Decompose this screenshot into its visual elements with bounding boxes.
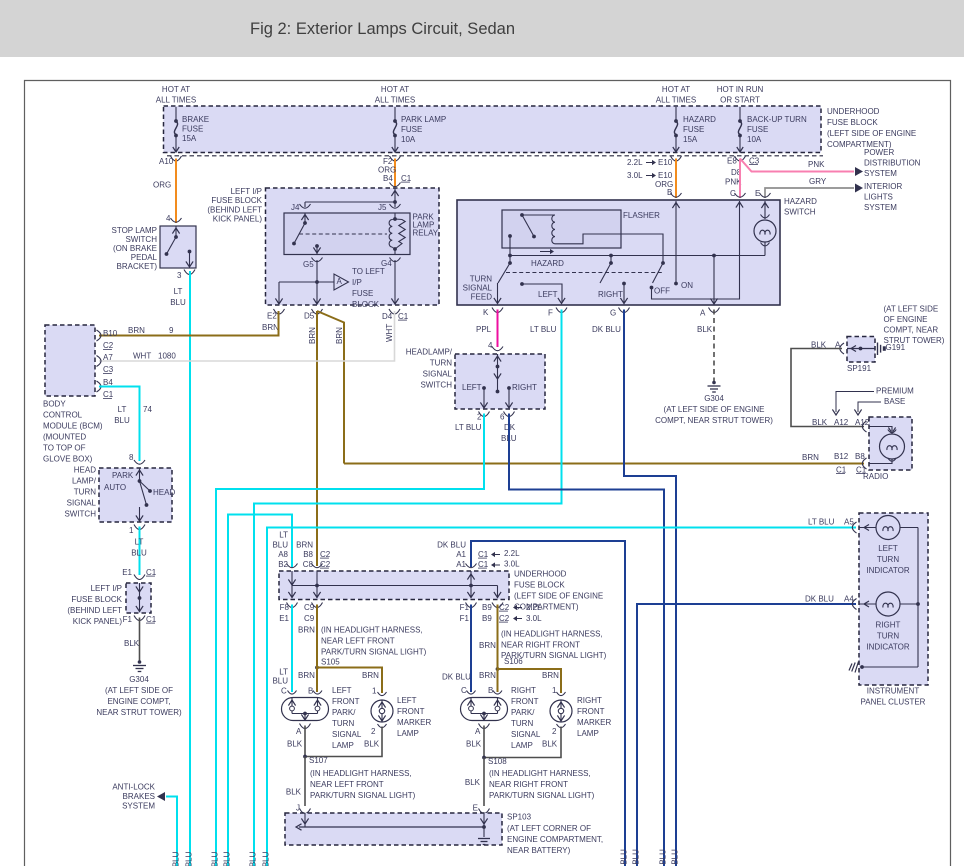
svg-text:(IN HEADLIGHT HARNESS,: (IN HEADLIGHT HARNESS,: [489, 769, 591, 778]
flasher output step line to OFF contact: [555, 234, 663, 262]
svg-text:BRN: BRN: [262, 323, 279, 332]
svg-text:LT: LT: [279, 530, 288, 539]
svg-text:BLU: BLU: [131, 548, 147, 557]
svg-text:AUTO: AUTO: [104, 483, 126, 492]
svg-text:TO LEFT: TO LEFT: [352, 267, 385, 276]
connector A left park/turn lamp: [300, 724, 311, 729]
svg-text:C1: C1: [836, 465, 847, 474]
svg-text:B9: B9: [482, 614, 492, 623]
wire LT BLU stop lamp switch to bottom of page: [189, 271, 191, 866]
connector E: [479, 809, 490, 814]
right front park/turn signal lamp: [461, 698, 508, 721]
svg-text:LT BLU: LT BLU: [249, 851, 258, 866]
internal wire B4 to relay: [394, 188, 396, 202]
ground G304 (left): [138, 660, 142, 664]
svg-text:LT: LT: [279, 667, 288, 676]
wire LT BLU to anti-lock brakes system: [166, 797, 177, 866]
svg-text:15A: 15A: [182, 134, 197, 143]
svg-text:Fig 2: Exterior Lamps Circuit,: Fig 2: Exterior Lamps Circuit, Sedan: [250, 20, 515, 38]
ground SP103: [478, 838, 490, 840]
svg-text:PREMIUM: PREMIUM: [876, 386, 914, 395]
svg-text:INDICATOR: INDICATOR: [866, 566, 909, 575]
svg-text:HOT AT: HOT AT: [662, 85, 690, 94]
connector C8 top: [312, 564, 323, 568]
svg-text:F8: F8: [280, 603, 290, 612]
svg-text:1: 1: [129, 526, 134, 535]
svg-text:LEFT: LEFT: [332, 686, 352, 695]
svg-text:POWER: POWER: [864, 148, 894, 157]
svg-text:SP103: SP103: [507, 812, 532, 821]
BASE call-out: [858, 402, 881, 412]
svg-text:LT BLU: LT BLU: [455, 423, 482, 432]
svg-text:3.0L: 3.0L: [504, 559, 520, 568]
svg-text:E: E: [755, 189, 760, 198]
right turn indicator lamp: [859, 603, 876, 605]
svg-text:LIGHTS: LIGHTS: [864, 192, 893, 201]
svg-text:LAMP: LAMP: [511, 741, 533, 750]
svg-text:LT BLU: LT BLU: [172, 851, 181, 866]
svg-text:A: A: [700, 308, 706, 317]
svg-text:BLU: BLU: [170, 298, 186, 307]
svg-text:NEAR RIGHT FRONT: NEAR RIGHT FRONT: [501, 640, 580, 649]
wire BLK right park/turn A to S108: [483, 726, 485, 758]
svg-text:PARK/: PARK/: [511, 708, 535, 717]
svg-text:GLOVE BOX): GLOVE BOX): [43, 454, 93, 463]
svg-text:B12: B12: [834, 452, 849, 461]
svg-text:SIGNAL: SIGNAL: [511, 730, 541, 739]
svg-text:(MOUNTED: (MOUNTED: [43, 432, 86, 441]
svg-text:FUSE BLOCK: FUSE BLOCK: [71, 595, 122, 604]
svg-text:C1: C1: [398, 312, 409, 321]
svg-text:C2: C2: [499, 603, 510, 612]
connector B8 radio: [862, 458, 866, 469]
svg-text:2.2L: 2.2L: [526, 603, 542, 612]
svg-text:HOT AT: HOT AT: [162, 85, 190, 94]
wire BRN S106 branch to right front marker lamp: [498, 669, 562, 693]
svg-text:BRN: BRN: [298, 671, 315, 680]
svg-text:INDICATOR: INDICATOR: [866, 642, 909, 651]
svg-text:J5: J5: [378, 203, 387, 212]
connector J4: [300, 204, 311, 208]
svg-text:RIGHT: RIGHT: [577, 696, 602, 705]
svg-text:LT: LT: [174, 287, 183, 296]
svg-text:SP191: SP191: [847, 364, 872, 373]
connector D5: [312, 309, 323, 314]
svg-text:B: B: [667, 188, 672, 197]
PREMIUM call-out: [836, 392, 874, 413]
svg-text:SWITCH: SWITCH: [784, 207, 816, 216]
svg-text:BLK: BLK: [466, 739, 482, 748]
svg-text:WHT: WHT: [385, 324, 394, 342]
wire BLK right marker 2 to S108: [484, 727, 561, 758]
svg-text:FUSE: FUSE: [683, 125, 704, 134]
svg-text:2: 2: [477, 412, 482, 421]
svg-text:LT: LT: [135, 537, 144, 546]
svg-text:C2: C2: [320, 550, 331, 559]
splice pack SP191 box: [847, 337, 875, 363]
svg-text:BRN: BRN: [296, 540, 313, 549]
svg-text:SWITCH: SWITCH: [125, 235, 157, 244]
svg-text:C1: C1: [146, 568, 157, 577]
svg-text:SWITCH: SWITCH: [64, 509, 96, 518]
svg-text:ON: ON: [681, 281, 693, 290]
wire LT BLU turn signal 2 (left turn): [216, 414, 484, 866]
OFF switch blade: [661, 261, 665, 265]
svg-text:PARK/TURN SIGNAL LIGHT): PARK/TURN SIGNAL LIGHT): [310, 791, 416, 800]
wire BRN S105 branch to left front marker lamp: [317, 668, 382, 694]
body control module (BCM) box: [45, 325, 95, 396]
left front park/turn signal lamp: [282, 698, 329, 721]
ground G304 (center): [712, 381, 716, 385]
band internal lines: [291, 571, 293, 598]
svg-text:RADIO: RADIO: [863, 472, 888, 481]
svg-text:HAZARD: HAZARD: [531, 259, 564, 268]
ground G191: [877, 343, 879, 356]
svg-text:KICK PANEL): KICK PANEL): [213, 215, 263, 224]
svg-text:CONTROL: CONTROL: [43, 410, 83, 419]
svg-text:FUSE: FUSE: [401, 125, 422, 134]
svg-text:BLK: BLK: [286, 787, 302, 796]
svg-text:C2: C2: [103, 341, 114, 350]
svg-text:ALL TIMES: ALL TIMES: [375, 95, 415, 104]
wire PNK branch to power distribution system: [740, 159, 854, 172]
hazard mechanical link (dashed): [506, 272, 663, 274]
svg-text:FUSE BLOCK: FUSE BLOCK: [827, 118, 878, 127]
svg-text:A7: A7: [103, 353, 113, 362]
svg-text:LEFT: LEFT: [878, 544, 898, 553]
svg-text:10A: 10A: [401, 135, 416, 144]
svg-text:LEFT: LEFT: [397, 696, 417, 705]
svg-text:DK BLU: DK BLU: [659, 849, 668, 866]
svg-text:ANTI-LOCK: ANTI-LOCK: [112, 782, 155, 791]
svg-text:E2: E2: [267, 311, 277, 320]
wire PNK E8 to hazard switch C: [739, 159, 741, 199]
svg-text:(LEFT SIDE OF ENGINE: (LEFT SIDE OF ENGINE: [827, 129, 916, 138]
svg-text:INSTRUMENT: INSTRUMENT: [867, 686, 920, 695]
svg-text:(BEHIND LEFT: (BEHIND LEFT: [207, 205, 262, 214]
svg-text:RIGHT: RIGHT: [512, 383, 537, 392]
relay resistor: [395, 219, 405, 249]
svg-text:C1: C1: [478, 560, 489, 569]
svg-text:NEAR RIGHT FRONT: NEAR RIGHT FRONT: [489, 780, 568, 789]
svg-text:DK BLU: DK BLU: [592, 325, 621, 334]
svg-text:E10: E10: [658, 158, 673, 167]
chassis ground symbol cluster: [855, 662, 859, 673]
svg-text:FRONT: FRONT: [511, 697, 539, 706]
turn signal switch box: [455, 354, 545, 409]
svg-text:DK BLU: DK BLU: [805, 594, 834, 603]
svg-text:TURN: TURN: [877, 631, 899, 640]
svg-text:SIGNAL: SIGNAL: [463, 283, 493, 292]
splice S107: [303, 755, 307, 759]
svg-text:74: 74: [143, 405, 152, 414]
connector 3 of stop lamp switch: [184, 270, 195, 275]
svg-text:LT BLU: LT BLU: [223, 851, 232, 866]
svg-text:3.0L: 3.0L: [526, 614, 542, 623]
wire BLK left marker 2 to S107: [305, 727, 382, 757]
svg-text:S106: S106: [504, 657, 523, 666]
svg-text:BRN: BRN: [802, 453, 819, 462]
relay switch contacts: [304, 213, 306, 222]
svg-text:COMPT, NEAR: COMPT, NEAR: [884, 325, 939, 334]
relay mechanical link (dashed): [299, 233, 387, 235]
svg-text:PARK/TURN SIGNAL LIGHT): PARK/TURN SIGNAL LIGHT): [321, 647, 427, 656]
connector B right park/turn lamp: [493, 691, 502, 695]
svg-text:DK BLU: DK BLU: [632, 849, 641, 866]
wire BLK S108 to E: [483, 758, 485, 807]
svg-text:NEAR STRUT TOWER): NEAR STRUT TOWER): [96, 708, 182, 717]
radio internal illumination lamp: [869, 427, 892, 432]
svg-text:FUSE BLOCK: FUSE BLOCK: [211, 196, 262, 205]
svg-text:INTERIOR: INTERIOR: [864, 182, 902, 191]
connector E1/C1: [134, 575, 145, 580]
underhood fuse block (band) box: [279, 571, 509, 600]
svg-text:STOP LAMP: STOP LAMP: [112, 226, 158, 235]
svg-text:1080: 1080: [158, 351, 176, 360]
svg-text:BRN: BRN: [335, 327, 344, 344]
hazard switch box: [457, 200, 780, 305]
svg-text:(IN HEADLIGHT HARNESS,: (IN HEADLIGHT HARNESS,: [310, 769, 412, 778]
LEFT position contact: [520, 282, 524, 286]
svg-text:15A: 15A: [683, 135, 698, 144]
svg-text:F1: F1: [460, 603, 470, 612]
svg-text:DK BLU: DK BLU: [437, 540, 466, 549]
wire DK BLU to instrument cluster A4: [637, 604, 856, 866]
connector E hazard switch: [760, 193, 771, 197]
left I/P fuse block box: [266, 188, 440, 305]
svg-text:B4: B4: [383, 174, 393, 183]
left I/P fuse block (small pass-through) box: [126, 583, 151, 613]
svg-text:FRONT: FRONT: [577, 707, 605, 716]
connector C right park/turn lamp: [467, 691, 476, 695]
svg-text:LAMP: LAMP: [397, 729, 419, 738]
svg-text:F1: F1: [460, 614, 470, 623]
connector A: [709, 308, 720, 313]
wire DK BLU underhood A1 feed: [471, 541, 625, 866]
wire BRN to left park/turn lamp B: [316, 605, 318, 693]
svg-text:I/P: I/P: [352, 278, 362, 287]
svg-text:BLU: BLU: [272, 676, 288, 685]
svg-text:KICK PANEL): KICK PANEL): [73, 617, 123, 626]
svg-text:FRONT: FRONT: [397, 707, 425, 716]
svg-text:3: 3: [177, 271, 182, 280]
wire BRN D5 branch down to radio: [317, 311, 344, 464]
wire BRN D5 down to underhood connector C8: [316, 311, 318, 566]
BCM connector A7/C3: [97, 356, 102, 367]
svg-text:COMPARTMENT): COMPARTMENT): [514, 602, 579, 611]
connector 2: [479, 412, 490, 417]
svg-text:ENGINE COMPT,: ENGINE COMPT,: [107, 697, 170, 706]
svg-text:HOT IN RUN: HOT IN RUN: [717, 85, 764, 94]
connector 2 left front marker lamp: [378, 724, 387, 728]
svg-text:4: 4: [488, 341, 493, 350]
BCM connector B10/C2: [97, 330, 102, 341]
svg-text:E1: E1: [279, 614, 289, 623]
svg-text:BLK: BLK: [812, 418, 828, 427]
svg-text:C: C: [730, 189, 736, 198]
svg-text:D5: D5: [304, 311, 315, 320]
svg-text:NEAR LEFT FRONT: NEAR LEFT FRONT: [310, 780, 384, 789]
svg-text:ENGINE COMPARTMENT,: ENGINE COMPARTMENT,: [507, 835, 603, 844]
svg-text:2.2L: 2.2L: [504, 549, 520, 558]
svg-text:BLK: BLK: [287, 739, 303, 748]
svg-text:C1: C1: [146, 615, 157, 624]
svg-text:UNDERHOOD: UNDERHOOD: [514, 569, 567, 578]
svg-text:SIGNAL: SIGNAL: [332, 730, 362, 739]
head lamp/turn signal switch box: [99, 468, 172, 522]
svg-text:LEFT I/P: LEFT I/P: [231, 187, 262, 196]
connector F1/C1: [134, 616, 145, 621]
svg-text:DK BLU: DK BLU: [442, 672, 471, 681]
connector E10 exits of hazard fuse: [671, 156, 682, 161]
SP191 internal bus: [847, 348, 875, 350]
svg-text:TO TOP OF: TO TOP OF: [43, 443, 86, 452]
svg-text:C3: C3: [749, 156, 760, 165]
cluster internal ground bus: [917, 528, 919, 668]
svg-text:K: K: [483, 308, 489, 317]
connector A5 cluster: [852, 522, 856, 533]
connector A4 cluster: [852, 599, 856, 610]
svg-text:2: 2: [552, 727, 557, 736]
svg-text:FRONT: FRONT: [332, 697, 360, 706]
arrow to ANTI-LOCK BRAKES SYSTEM: [157, 792, 165, 801]
svg-text:G5: G5: [303, 260, 314, 269]
fuse block connector row line: [167, 155, 823, 157]
svg-text:C1: C1: [103, 390, 114, 399]
svg-text:RIGHT: RIGHT: [598, 290, 623, 299]
splice S108: [482, 756, 486, 760]
svg-text:RIGHT: RIGHT: [511, 686, 536, 695]
svg-text:SYSTEM: SYSTEM: [864, 203, 897, 212]
connector 4 of turn signal switch: [492, 347, 503, 351]
wire LT BLU switch 1 to E1: [139, 527, 141, 576]
connector 4 of stop lamp switch: [171, 218, 182, 222]
internal wire G5 to triangle A and exits: [316, 260, 318, 282]
connector J5: [390, 204, 401, 208]
svg-text:G191: G191: [886, 343, 906, 352]
svg-text:10A: 10A: [747, 135, 762, 144]
connector J: [300, 809, 311, 814]
svg-text:FLASHER: FLASHER: [623, 211, 660, 220]
svg-text:2.2L: 2.2L: [627, 158, 643, 167]
svg-text:LEFT: LEFT: [462, 383, 482, 392]
svg-text:(ON BRAKE: (ON BRAKE: [113, 244, 157, 253]
svg-text:SYSTEM: SYSTEM: [864, 169, 897, 178]
svg-text:PARK LAMP: PARK LAMP: [401, 115, 446, 124]
svg-text:9: 9: [169, 326, 174, 335]
connector 6: [504, 412, 515, 417]
connector B9 bottom: [492, 603, 503, 608]
BCM connector B4/C1: [97, 381, 102, 392]
svg-text:GRY: GRY: [809, 177, 827, 186]
connector D4: [389, 309, 400, 314]
wire BRN horizontal to radio B12: [344, 463, 864, 465]
svg-text:BRAKES: BRAKES: [123, 792, 155, 801]
connector G5: [316, 246, 318, 254]
svg-text:HAZARD: HAZARD: [784, 197, 817, 206]
svg-text:NEAR LEFT FRONT: NEAR LEFT FRONT: [321, 636, 395, 645]
svg-text:PARK/TURN SIGNAL LIGHT): PARK/TURN SIGNAL LIGHT): [489, 791, 595, 800]
arrow to INTERIOR LIGHTS SYSTEM: [855, 184, 863, 193]
arrow to POWER DISTRIBUTION SYSTEM: [855, 167, 863, 176]
svg-text:HEADLAMP/: HEADLAMP/: [406, 347, 453, 356]
svg-text:FUSE BLOCK: FUSE BLOCK: [514, 580, 565, 589]
svg-text:3.0L: 3.0L: [627, 171, 643, 180]
connector A1 top: [466, 564, 477, 568]
svg-text:HEAD: HEAD: [153, 488, 175, 497]
svg-text:8: 8: [129, 453, 134, 462]
wire ORG F2 to B4: [394, 159, 396, 188]
svg-text:C2: C2: [499, 614, 510, 623]
svg-text:TURN: TURN: [511, 719, 533, 728]
svg-text:G304: G304: [129, 675, 149, 684]
svg-text:BLU: BLU: [272, 540, 288, 549]
svg-text:A1: A1: [456, 560, 466, 569]
svg-text:J: J: [296, 803, 300, 812]
svg-text:E1: E1: [122, 568, 132, 577]
connector B4 top of left I/P fuse block: [390, 183, 401, 187]
svg-text:FUSE: FUSE: [352, 289, 373, 298]
svg-text:BRAKE: BRAKE: [182, 115, 209, 124]
svg-text:B10: B10: [103, 329, 118, 338]
park lamp relay box: [284, 213, 410, 255]
svg-text:A: A: [296, 727, 302, 736]
svg-text:LEFT: LEFT: [538, 290, 558, 299]
svg-text:TURN: TURN: [332, 719, 354, 728]
svg-text:PPL: PPL: [476, 325, 492, 334]
svg-text:LT BLU: LT BLU: [808, 517, 835, 526]
flasher box: [502, 210, 621, 248]
left turn indicator lamp: [859, 527, 876, 529]
svg-text:BLU: BLU: [114, 416, 130, 425]
connector F8/E1 bottom: [287, 603, 298, 608]
left front marker lamp: [371, 700, 393, 722]
svg-text:SIGNAL: SIGNAL: [67, 498, 97, 507]
svg-text:FUSE: FUSE: [747, 125, 768, 134]
connector F1 bottom: [466, 603, 477, 608]
svg-text:OFF: OFF: [654, 286, 670, 295]
connector 1: [134, 525, 145, 530]
svg-text:BACK-UP TURN: BACK-UP TURN: [747, 115, 807, 124]
svg-text:G304: G304: [704, 394, 724, 403]
connector C hazard switch: [735, 193, 746, 197]
wire WHT D4 to BCM A7: [99, 311, 395, 361]
svg-text:1: 1: [552, 686, 557, 695]
wire BLK SP191 to radio A12: [791, 349, 864, 427]
svg-text:S105: S105: [321, 657, 340, 666]
svg-text:BRN: BRN: [479, 671, 496, 680]
right front marker lamp: [550, 700, 572, 722]
wire BLK (dashed) hazard A to ground G304: [713, 310, 715, 382]
svg-text:BLK: BLK: [124, 639, 140, 648]
svg-text:TURN: TURN: [74, 487, 96, 496]
connector C left park/turn lamp: [288, 691, 297, 695]
svg-text:(LEFT SIDE OF ENGINE: (LEFT SIDE OF ENGINE: [514, 591, 603, 600]
hazard arrow marker: [540, 251, 551, 253]
svg-text:HEAD: HEAD: [74, 465, 96, 474]
svg-text:C8: C8: [303, 560, 314, 569]
svg-text:OR START: OR START: [720, 95, 760, 104]
svg-text:FEED: FEED: [471, 292, 493, 301]
turn signal feed switch blade: [509, 236, 511, 263]
turn signal switch internals: [497, 354, 499, 391]
svg-text:PNK: PNK: [808, 160, 825, 169]
svg-text:A12: A12: [834, 418, 849, 427]
wire ORG A10 to stop lamp switch: [175, 159, 177, 224]
stop lamp switch box: [160, 226, 196, 268]
connector A10: [171, 156, 182, 161]
svg-text:B: B: [308, 686, 313, 695]
